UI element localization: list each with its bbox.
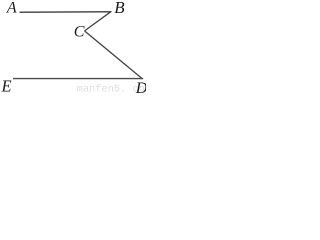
line AB [20,11,112,14]
svg-text:C: C [74,24,85,41]
svg-text:B: B [114,0,125,17]
line BC [85,11,112,31]
svg-text:A: A [6,0,17,17]
line ED [13,78,143,80]
svg-text:E: E [1,77,12,93]
svg-text:D: D [135,80,146,93]
line CD [85,31,143,79]
